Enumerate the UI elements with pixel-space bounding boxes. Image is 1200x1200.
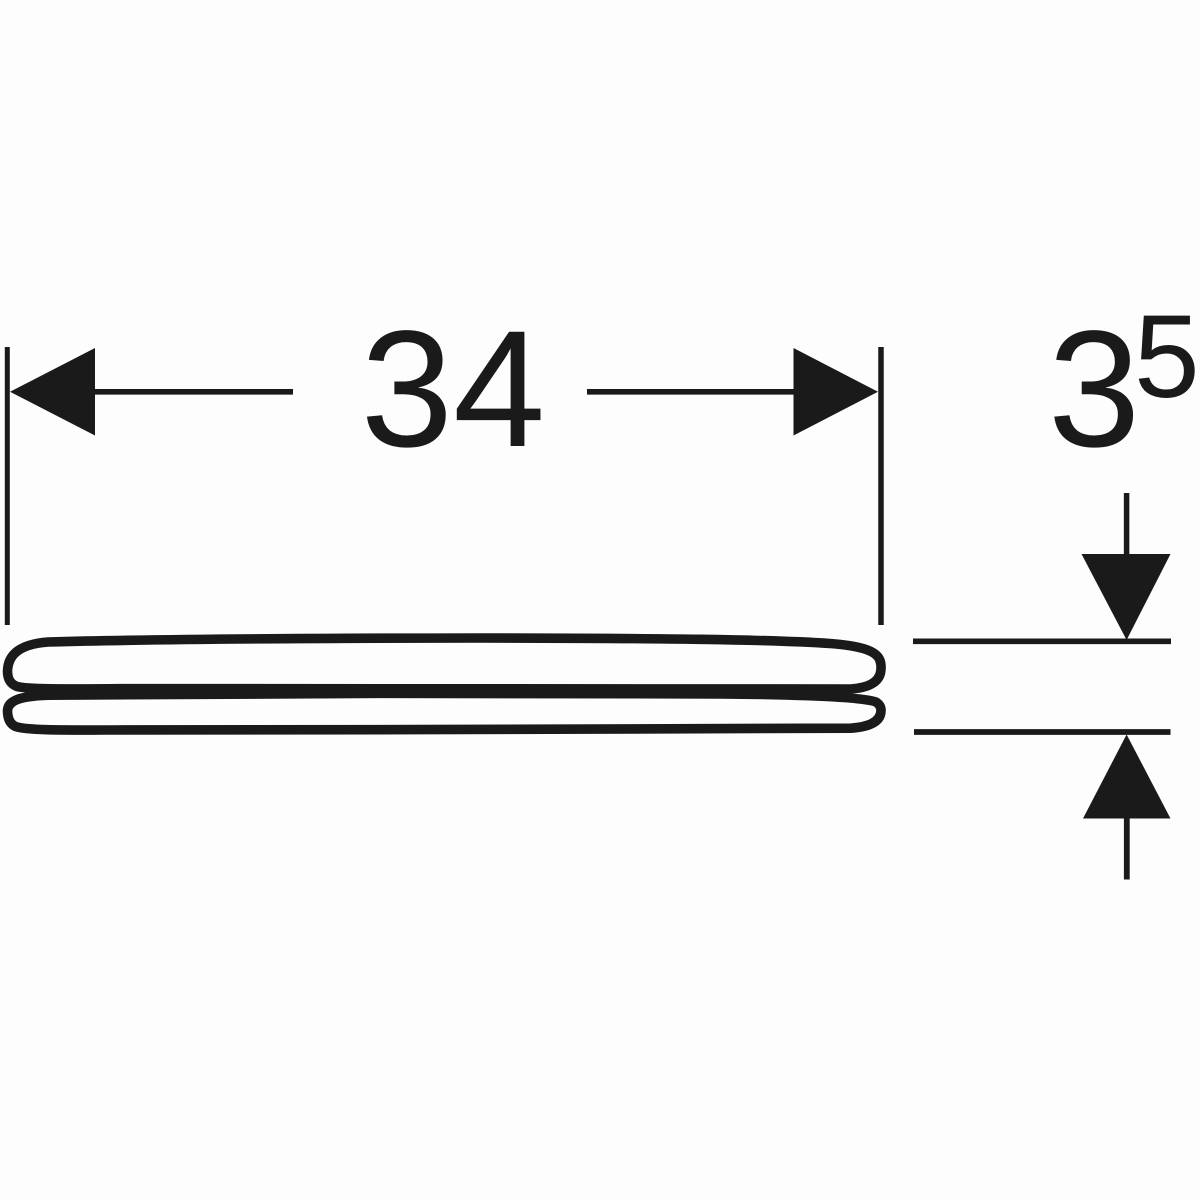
svg-text:3: 3 xyxy=(1048,297,1140,482)
label 34 xyxy=(361,297,546,482)
label 3 superscript 5 xyxy=(1048,291,1200,482)
svg-text:5: 5 xyxy=(1134,291,1200,423)
left extension line xyxy=(5,347,10,625)
right extension line xyxy=(878,347,884,625)
seat ring profile (lower shape) xyxy=(8,693,882,730)
thickness bottom dimension line xyxy=(914,729,1171,735)
left arrowhead xyxy=(10,348,95,436)
thickness top dimension line xyxy=(913,638,1171,644)
down arrow stem xyxy=(1124,493,1130,560)
down arrowhead xyxy=(1082,554,1171,640)
dimension line right segment xyxy=(587,389,830,395)
seat lid profile (upper shape) xyxy=(8,638,882,689)
right arrowhead xyxy=(794,348,879,436)
dimension line left segment xyxy=(60,389,293,395)
up arrowhead xyxy=(1083,735,1171,819)
up arrow stem xyxy=(1124,812,1130,880)
svg-text:34: 34 xyxy=(361,297,546,482)
